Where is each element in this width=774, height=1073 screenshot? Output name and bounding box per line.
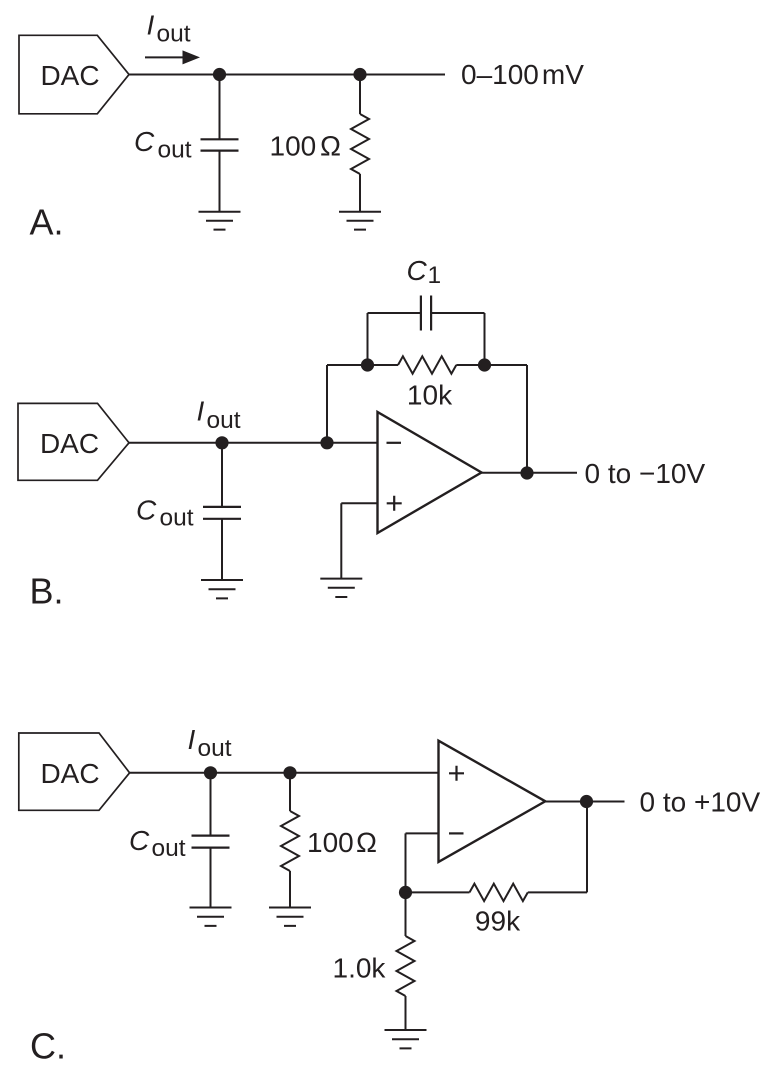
svg-text:DAC: DAC (40, 428, 99, 459)
svg-text:C: C (407, 255, 428, 286)
svg-text:I: I (188, 724, 196, 755)
svg-text:out: out (157, 21, 191, 48)
svg-text:out: out (158, 136, 192, 163)
svg-text:10k: 10k (407, 380, 453, 411)
svg-text:1.0k: 1.0k (333, 953, 387, 984)
svg-text:100Ω: 100Ω (307, 827, 377, 858)
svg-text:99k: 99k (475, 906, 521, 937)
svg-text:out: out (198, 735, 232, 762)
svg-text:out: out (207, 407, 241, 434)
svg-text:DAC: DAC (40, 60, 99, 91)
svg-text:I: I (197, 396, 205, 427)
svg-text:C: C (134, 126, 155, 157)
svg-text:1: 1 (428, 262, 442, 289)
svg-text:C: C (136, 495, 157, 526)
svg-text:I: I (147, 10, 155, 41)
svg-text:0–100mV: 0–100mV (461, 59, 584, 90)
svg-text:DAC: DAC (40, 758, 99, 789)
svg-text:100Ω: 100Ω (270, 131, 342, 162)
svg-text:out: out (152, 835, 186, 862)
svg-text:C: C (129, 825, 150, 856)
svg-text:out: out (160, 505, 194, 532)
svg-text:0 to −10V: 0 to −10V (585, 458, 706, 489)
svg-text:0 to +10V: 0 to +10V (640, 787, 761, 818)
svg-text:C.: C. (30, 1026, 66, 1067)
svg-text:A.: A. (30, 202, 64, 243)
svg-text:B.: B. (30, 570, 64, 611)
